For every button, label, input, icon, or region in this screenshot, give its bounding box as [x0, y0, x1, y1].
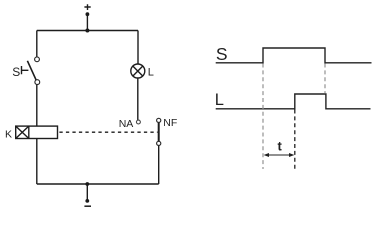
svg-text:S: S [12, 65, 20, 79]
svg-text:L: L [215, 91, 224, 109]
svg-text:K: K [5, 128, 12, 140]
svg-text:t: t [278, 139, 283, 154]
svg-text:L: L [148, 66, 154, 78]
svg-text:S: S [216, 44, 228, 64]
svg-text:NA: NA [119, 118, 134, 130]
svg-text:NF: NF [163, 117, 177, 129]
